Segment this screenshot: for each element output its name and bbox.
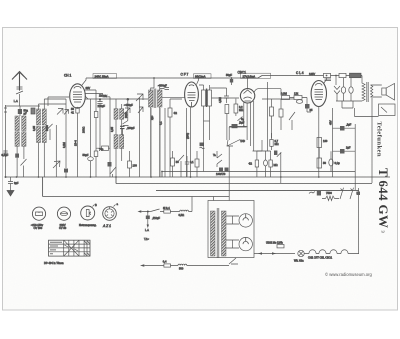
output transformer secondary <box>371 85 373 97</box>
resistor 100 box <box>128 161 132 168</box>
coil L4 <box>22 132 26 147</box>
IF transformer 2 secondary <box>208 90 212 106</box>
resistor 50 lower <box>317 158 322 168</box>
wire r24 <box>280 99 282 130</box>
rail junction dots <box>153 77 155 79</box>
socket CV300 slot <box>36 212 43 216</box>
wire tube1 plate up <box>82 78 86 85</box>
rectifier lower internals <box>243 237 248 244</box>
switch arm right <box>289 112 295 130</box>
wire bus 3 <box>156 189 359 191</box>
junction mains <box>147 211 149 213</box>
wire rectifier links <box>226 216 239 248</box>
speaker cone <box>386 84 394 101</box>
wire IF2 down to AVC <box>203 140 205 172</box>
wire heater links <box>304 253 358 255</box>
socket AZ1 <box>103 207 117 221</box>
resistor 50 41 under tube <box>76 108 79 114</box>
electrolytic 50uF oval <box>88 157 94 161</box>
capacitor 0.1uF dark <box>232 124 238 128</box>
wire CL4 plate <box>324 76 327 84</box>
speaker driver <box>382 88 386 95</box>
wire 70V line tube1 to IF1 <box>85 98 149 100</box>
arrowhead mains upper <box>138 210 142 212</box>
wire left edge down <box>5 126 7 177</box>
wire 0.2M lower <box>257 151 271 177</box>
wire CF7 plate <box>197 78 199 85</box>
socket AZ1 pins <box>107 207 113 216</box>
electrolytic cap 1 <box>341 87 345 93</box>
value 27V 0.5mA <box>241 73 271 78</box>
capacitor 50uF on rail <box>230 79 233 83</box>
resistor 0.2M lower <box>269 160 272 167</box>
wire 0.1uF to node <box>229 125 247 127</box>
squiggle below cap <box>200 147 205 149</box>
capacitor 6uF electrolytic <box>317 191 321 196</box>
wire CBC1 pin drops <box>244 101 254 151</box>
wire 240V bend to IF1 <box>153 78 155 88</box>
value 90V 2mA <box>194 74 212 79</box>
transformer winding secondary <box>222 211 227 256</box>
coil L2 hatched <box>22 116 26 131</box>
capacitor dark right <box>274 151 277 156</box>
heater hump CH1 <box>309 250 316 254</box>
table X marks <box>64 240 90 256</box>
switch arm osc <box>110 167 116 177</box>
vertical line mid 186 <box>186 108 188 177</box>
IF transformer 1 primary coil <box>149 90 154 107</box>
socket mains tick <box>93 205 95 207</box>
wire 68V screen line <box>84 90 103 151</box>
vertical line 165 <box>164 108 166 177</box>
wire right cluster bottom <box>336 94 362 101</box>
heater hump CBC1 <box>341 250 348 254</box>
wire 68V to bus <box>95 157 97 178</box>
wire 240V plate supply top rail <box>86 76 362 79</box>
wire elcap2 <box>336 76 351 102</box>
wire mid c <box>196 151 198 177</box>
wire screen resistor <box>170 99 182 177</box>
vertical line 281 <box>280 157 282 184</box>
switch contacts Ta <box>217 151 222 167</box>
capacitor 70 dark <box>108 162 112 167</box>
wire IF2 bottom joint <box>204 120 210 122</box>
wire right area <box>356 188 359 254</box>
trimmer arrow IF1 <box>136 94 143 101</box>
capacitor IF1 top <box>160 88 169 90</box>
dial lamp cross <box>299 251 303 255</box>
resistor 4.5M <box>225 105 229 114</box>
rectifier tube lower <box>239 237 252 250</box>
wire CL4 cathode down <box>318 107 320 178</box>
socket AZ1 inner <box>105 209 114 218</box>
power transformer box <box>208 201 254 258</box>
wire to CL4 grid <box>307 109 311 113</box>
arrowhead down mains <box>147 225 149 229</box>
rectifier tube upper <box>239 214 252 227</box>
wire between h resistors <box>290 98 308 105</box>
table column lines <box>64 240 87 256</box>
vertical line 267 <box>267 82 269 151</box>
junction dot CBC1 grid <box>243 125 245 127</box>
wire transformer top stub <box>213 197 215 201</box>
wire tube1 cathode down <box>77 107 79 177</box>
wire resistor 160 <box>318 148 320 159</box>
fuse box mains lower <box>164 264 171 267</box>
switch right top a <box>340 188 344 199</box>
capacitor left edge <box>3 151 7 153</box>
vertical line 355 <box>354 124 356 190</box>
resistor 7500 zigzag <box>326 196 335 201</box>
capacitor 2uF dark b <box>340 149 345 154</box>
coil osc upper left <box>114 109 118 120</box>
wire 0.7M <box>271 99 273 138</box>
wire box link <box>355 108 379 117</box>
switch S1 <box>238 117 243 125</box>
tube CBC1 envelope <box>240 89 254 103</box>
wire resistor 100 <box>129 151 131 177</box>
switch below transformer <box>229 258 238 264</box>
resistor anode top horizontal <box>324 73 331 77</box>
wire CF7 cathode down <box>190 108 192 178</box>
wire bus 2 <box>116 177 372 184</box>
vertical line mid 160 <box>159 108 161 177</box>
output transformer primary zigzag <box>362 76 365 102</box>
trimmer arrow 2 <box>43 158 45 162</box>
coil L8 <box>42 127 46 143</box>
wire pot line down <box>228 167 230 201</box>
heater hump CF7 <box>319 250 326 254</box>
tube CBC1 internals <box>244 90 252 101</box>
capacitor below anode resistor <box>325 79 332 81</box>
wire osc grid line <box>104 97 111 177</box>
capacitor 3uF <box>8 177 13 186</box>
field box inner <box>381 107 387 113</box>
switch hook contact <box>309 192 315 194</box>
resistor 0.7M <box>270 107 274 116</box>
wire 0.7M stubs <box>271 133 273 150</box>
coil mains loops <box>170 210 192 211</box>
wire top feed right cluster <box>262 98 294 100</box>
wire osc to bus <box>43 162 45 177</box>
heater chain wire <box>254 253 295 255</box>
capacitor 60 <box>64 169 68 173</box>
IF2 core <box>205 89 208 108</box>
wire antenna rail <box>5 105 40 107</box>
wire 0.2M b <box>235 99 237 116</box>
capacitor right small <box>357 192 361 196</box>
trimmer arrow 1 <box>21 159 27 177</box>
resistor anode top b <box>339 73 346 77</box>
vertical line 40V <box>332 108 334 177</box>
trimmer arrows antenna <box>57 109 69 115</box>
arrowheads heater wire <box>258 252 276 254</box>
coil osc lower right <box>120 135 124 149</box>
wire 50uF stub <box>231 78 233 85</box>
wire bus 4 <box>43 177 230 197</box>
socket mains <box>81 206 95 220</box>
capacitor dark on 201 <box>200 143 205 147</box>
capacitor 50uuF ant dark <box>18 109 22 114</box>
coil L1 hatched <box>15 116 19 131</box>
wire osc coil <box>116 104 122 177</box>
resistor 160 <box>317 138 322 148</box>
wire transformer down <box>371 98 373 183</box>
junction dot 70V <box>127 98 130 101</box>
wire cap ant stubs <box>19 106 21 116</box>
resistor 740b on 68V line <box>94 151 98 157</box>
switch S mid <box>179 155 185 177</box>
tube CF7 envelope <box>185 82 199 107</box>
rectifier upper internals <box>243 214 248 221</box>
coil L6 osc <box>42 109 46 125</box>
antenna <box>12 72 27 91</box>
capacitor 0.1uF dark a <box>340 126 345 131</box>
IF transformer 1 core <box>154 89 156 109</box>
wire mains riser <box>191 197 193 212</box>
wire coil block left <box>17 146 24 159</box>
transformer core <box>217 208 219 258</box>
tube CF7 internals <box>188 85 196 107</box>
junction dots bus <box>5 176 7 178</box>
resistor 0.2M b <box>234 104 238 113</box>
capacitor oval 0.1 <box>329 159 333 166</box>
capacitor mains block <box>146 216 150 220</box>
switch arm 1 <box>48 124 53 140</box>
wire 1M lower <box>256 151 258 177</box>
wire speaker return <box>342 101 353 108</box>
resistor TAD horizontal left <box>102 146 109 150</box>
wire dark cap 16.5 <box>16 158 18 177</box>
wire ground bus <box>5 176 390 178</box>
wire IF2 to CBC1 grid <box>210 97 239 99</box>
coil L5 osc <box>37 109 41 125</box>
wire CBC1 top <box>247 78 249 89</box>
junction dot 281 <box>280 176 282 178</box>
wire osc coils <box>39 99 45 177</box>
wire 4.5M down <box>210 88 227 140</box>
wire tube1 70V <box>85 96 88 99</box>
dial lamp <box>298 250 304 256</box>
wire secondary to speaker <box>371 85 382 97</box>
wire antenna down <box>19 94 21 106</box>
wire cap a stubs <box>333 127 356 129</box>
wire coil top link <box>115 99 117 104</box>
mains chain lower wire <box>144 265 229 267</box>
tube CH1 internals <box>73 87 82 103</box>
potentiometer TAD arrow <box>227 140 240 147</box>
ground arrow <box>7 186 14 196</box>
capacitor oval coupling <box>296 100 302 104</box>
trimmer arrows pair <box>124 107 143 114</box>
table row captions <box>50 242 62 254</box>
terminal E left edge <box>4 105 7 126</box>
mains chain upper wire <box>141 211 164 213</box>
switch mains upper <box>151 209 160 212</box>
socket CV50 slot <box>60 212 67 216</box>
capacitor 10uF <box>224 92 229 103</box>
switch right top b <box>350 188 354 199</box>
capacitor oval lower <box>264 160 268 166</box>
wire oval stubs <box>330 151 332 171</box>
wire IF1 connections <box>151 84 160 177</box>
wire CF7 grid left <box>162 97 185 99</box>
junction dot 50uuF <box>99 98 101 100</box>
fuse box mains <box>164 210 171 213</box>
resistor mid a <box>171 158 175 166</box>
resistor CF7 screen <box>168 108 172 117</box>
field coil box <box>379 104 396 116</box>
hatched resistor field coil <box>350 73 362 78</box>
socket mains pins <box>86 210 91 217</box>
capacitor dark block <box>305 104 310 109</box>
socket AZ1 tick <box>114 205 116 207</box>
resistor 0.3M horizontal <box>282 96 290 100</box>
coil L3 <box>15 132 19 147</box>
wire top coil feed <box>39 97 70 126</box>
wire zigzag stubs <box>322 198 339 200</box>
wire AVC line <box>162 172 355 178</box>
wire CBC1 plate to 151 <box>253 140 263 151</box>
capacitor 50uuF on 70V line <box>97 99 102 148</box>
switch right lower <box>277 152 282 157</box>
switch contact mid <box>123 121 129 126</box>
arrowhead mains lower <box>140 264 144 266</box>
resistor 0.5M horizontal <box>294 96 302 100</box>
vertical line mid 151 <box>150 108 152 177</box>
capacitor dark pair b <box>225 168 229 172</box>
wire trimmer down <box>15 154 19 158</box>
resistor 0.7M <box>270 140 273 147</box>
capacitor antenna coupling <box>16 87 23 94</box>
transformer winding primary <box>211 211 216 256</box>
wire oval lower <box>265 151 267 177</box>
wire CBC1 plate right <box>254 89 281 96</box>
resistor 2M on 68V line <box>94 112 98 118</box>
resistor r24 <box>279 109 283 117</box>
capacitor mid b <box>185 156 189 177</box>
wire 50uF oval <box>90 99 92 177</box>
coil osc lower left <box>114 135 118 149</box>
tube CL4 envelope <box>311 81 326 107</box>
tube CL4 internals <box>315 83 324 99</box>
socket CV300 <box>32 207 45 220</box>
table row lines <box>49 244 91 252</box>
diode chevrons <box>334 86 340 94</box>
IF transformer 2 primary <box>202 90 206 106</box>
resistor 50 dark <box>31 108 35 114</box>
heater hump CBL <box>330 250 337 254</box>
tube CH1 envelope <box>70 84 86 108</box>
switch arm 2 <box>53 125 60 177</box>
wire TAD left <box>96 147 110 149</box>
coil mains loops lower <box>178 264 187 265</box>
wire 70V node down <box>127 99 129 121</box>
socket CV50 <box>57 207 70 220</box>
voltage table frame <box>49 240 91 256</box>
wire cap b stubs <box>333 150 356 152</box>
resistor mid c <box>195 159 199 167</box>
capacitor 100uF mid <box>120 126 125 135</box>
electrolytic cap 2 <box>349 87 353 93</box>
wire cap down arrow <box>147 212 149 225</box>
capacitor dark pair <box>219 168 223 172</box>
wire IF2 connections <box>199 85 210 140</box>
resistor 1M lower <box>255 160 258 167</box>
wire trimmer to bus <box>139 98 141 178</box>
wire volume pot down <box>229 127 246 167</box>
wire mid a <box>172 151 174 177</box>
regulator box 1202 <box>277 245 284 248</box>
socket CV50 slot line <box>60 213 67 215</box>
wire 0.2M <box>65 126 67 177</box>
coil L7 <box>37 127 41 143</box>
output transformer core <box>367 82 368 102</box>
value 240V 15mA <box>93 74 117 79</box>
IF transformer 1 secondary coil <box>158 90 163 107</box>
coil osc upper right <box>120 109 124 120</box>
